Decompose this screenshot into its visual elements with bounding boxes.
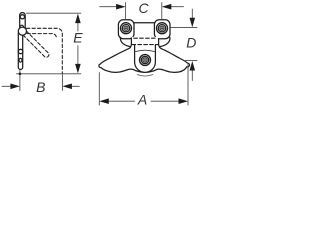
E top extension line	[27, 12, 81, 14]
A right extension line	[187, 65, 189, 106]
front view: pad bottom eraser	[132, 37, 158, 40]
front view: hook body outline right	[157, 39, 189, 72]
E top arrow	[77, 23, 79, 31]
A left extension line	[98, 73, 100, 106]
front view: right screw	[157, 23, 168, 34]
svg-text:E: E	[73, 30, 83, 46]
B right extension line	[61, 75, 63, 91]
side view: dashed hook arm open position (capsule)	[24, 31, 49, 57]
C right arrow	[171, 6, 183, 8]
side view: strap hole	[18, 49, 22, 53]
C right extension line	[161, 3, 163, 20]
side view: tab hole	[20, 15, 24, 19]
svg-text:A: A	[137, 92, 147, 108]
front view: hidden pin edges (dashed)	[132, 38, 159, 44]
front view: shadow arc under boss	[137, 75, 153, 77]
dimension D	[171, 9, 197, 81]
side view: link ring	[20, 25, 24, 29]
D bottom arrow	[191, 70, 193, 81]
front view: left screw	[121, 23, 132, 34]
B right arrow	[72, 85, 80, 87]
D top extension line	[171, 27, 197, 29]
E bottom extension line	[17, 73, 81, 75]
junction dot	[19, 73, 22, 76]
side view: pivot circle	[18, 27, 26, 35]
front view: right pin end	[159, 37, 170, 47]
dimension E	[17, 13, 81, 74]
front view: hook body fill	[99, 39, 190, 72]
front view: hook body outline left	[99, 39, 157, 72]
dimension C	[100, 3, 184, 20]
svg-text:C: C	[139, 0, 150, 16]
C left extension line	[125, 3, 127, 20]
dimension B	[2, 70, 79, 90]
dimension A	[99, 65, 188, 106]
D bottom extension line	[185, 60, 197, 62]
front view: strap fold line	[136, 50, 155, 51]
front view: left screw pad	[118, 20, 134, 39]
C left arrow	[100, 6, 117, 8]
front view: center boss (U strap)	[135, 45, 156, 73]
front view: right screw pad	[154, 20, 170, 39]
front view: plate middle strip	[132, 23, 158, 39]
side view: top tab	[20, 13, 26, 28]
side view: strap lower slot	[19, 58, 22, 62]
A left arrow	[109, 100, 135, 102]
front view: left pin end	[120, 37, 131, 47]
side view: dashed hook profile closed position	[27, 28, 63, 73]
B left extension line	[19, 70, 21, 90]
svg-text:D: D	[186, 35, 196, 51]
svg-text:B: B	[36, 79, 45, 95]
E bottom arrow	[77, 46, 79, 64]
A right arrow	[151, 100, 179, 102]
D top arrow	[191, 9, 193, 18]
B left arrow	[2, 85, 11, 87]
front view: center screw	[140, 55, 151, 66]
side view: strap lower section	[18, 33, 22, 69]
